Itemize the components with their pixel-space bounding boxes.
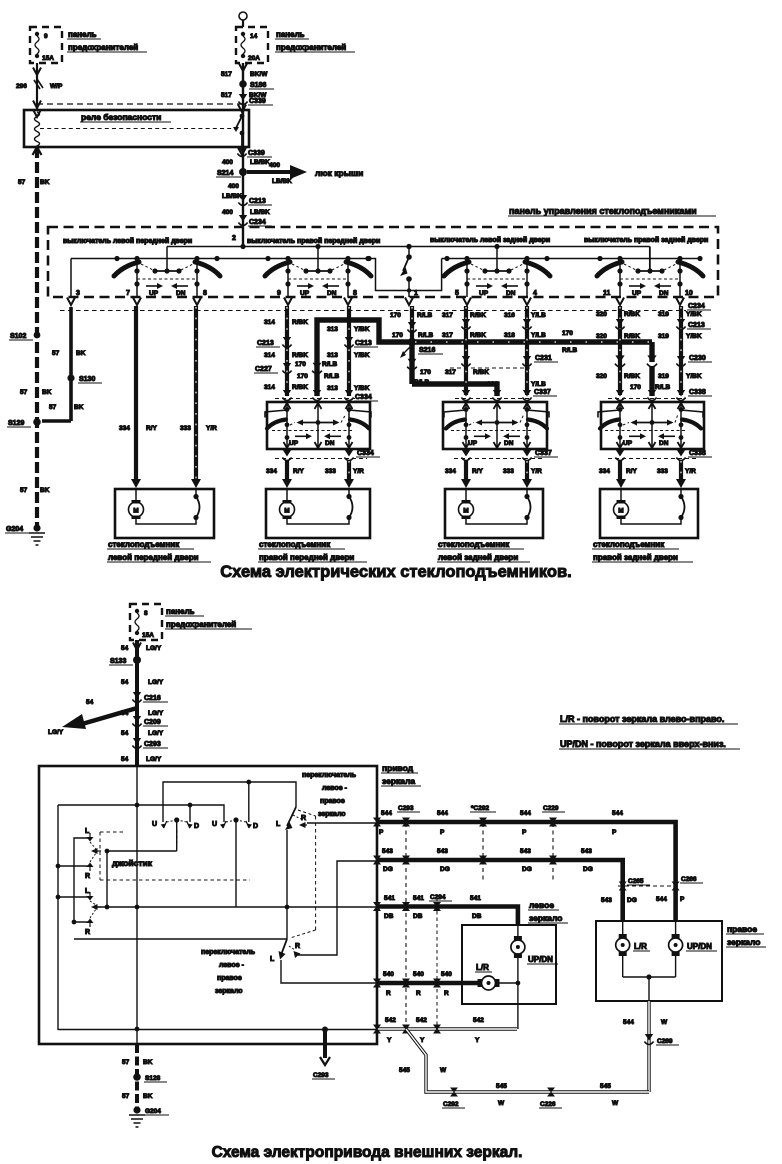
svg-text:7: 7: [126, 290, 130, 297]
svg-text:DB: DB: [384, 913, 394, 920]
motor label: [592, 540, 693, 562]
svg-text:54: 54: [121, 645, 129, 652]
svg-text:зеркало: зеркало: [215, 988, 243, 995]
svg-text:LB/BK: LB/BK: [272, 178, 292, 185]
svg-text:R/BK: R/BK: [473, 369, 489, 376]
svg-text:314: 314: [264, 352, 275, 359]
svg-text:S128: S128: [145, 1075, 161, 1082]
wire fuse1 to relay 296 W/P: [16, 63, 63, 110]
svg-text:LG/Y: LG/Y: [148, 730, 164, 737]
svg-text:170: 170: [390, 312, 401, 319]
svg-text:54: 54: [121, 756, 129, 763]
wire 517 BK/W with S186: [221, 63, 268, 247]
feed line A: [163, 780, 296, 822]
svg-text:зеркала: зеркала: [382, 776, 415, 786]
svg-text:UP: UP: [479, 290, 489, 297]
svg-text:C338: C338: [689, 450, 706, 457]
right mirror box: [596, 921, 722, 1001]
svg-text:стеклоподъемник: стеклоподъемник: [438, 540, 510, 549]
svg-text:BK: BK: [143, 1059, 153, 1066]
motor label: [437, 540, 530, 562]
bottom internal wire to 542: [58, 1027, 377, 1033]
svg-text:люк крыши: люк крыши: [315, 168, 363, 178]
svg-text:R/Y: R/Y: [293, 468, 305, 475]
svg-text:левое -: левое -: [322, 785, 348, 792]
svg-text:панель управления стеклоподъем: панель управления стеклоподъемниками: [509, 206, 697, 216]
svg-text:541: 541: [413, 895, 424, 902]
row 541 DB: [377, 895, 518, 926]
svg-text:C230: C230: [689, 355, 706, 362]
svg-text:DB: DB: [472, 913, 482, 920]
svg-text:C269: C269: [657, 1038, 673, 1045]
svg-text:313: 313: [327, 326, 338, 333]
svg-text:170: 170: [420, 369, 431, 376]
wire 334 R/Y to motor: [266, 460, 305, 481]
svg-text:BK: BK: [76, 350, 86, 357]
svg-text:Y/R: Y/R: [685, 468, 696, 475]
svg-text:левое -: левое -: [219, 962, 245, 969]
svg-text:314: 314: [264, 384, 275, 391]
svg-text:R: R: [444, 990, 449, 997]
connector C231 left: [461, 356, 470, 367]
wire 317 R/BK: [442, 306, 489, 395]
svg-text:DN: DN: [506, 290, 516, 297]
svg-text:R/LB: R/LB: [655, 384, 670, 391]
svg-text:8: 8: [203, 290, 207, 297]
левое зеркало label: [528, 900, 568, 923]
svg-text:R: R: [386, 990, 391, 997]
svg-text:L: L: [85, 888, 90, 895]
svg-text:Y/LB: Y/LB: [531, 332, 546, 339]
svg-text:320: 320: [596, 333, 607, 340]
connector C213 (feed): [238, 195, 272, 206]
svg-text:S130: S130: [79, 376, 95, 383]
svg-text:54: 54: [86, 699, 94, 706]
svg-text:D: D: [253, 823, 258, 830]
cross wire L1-R2 x74: [72, 838, 90, 924]
wire 334 R/Y left front: [119, 306, 158, 481]
splice S130: [67, 374, 102, 383]
fuse panel 1 (левый, 15A): [30, 27, 62, 63]
connector C294 dashed vertical: [436, 898, 438, 1028]
ground G204 (bottom): [129, 1106, 169, 1127]
svg-text:Y: Y: [475, 1037, 480, 1044]
connector C226 (bottom): [539, 1088, 562, 1109]
svg-text:544: 544: [623, 1019, 634, 1026]
C293 stub below box: [312, 1030, 335, 1079]
svg-text:54: 54: [121, 710, 129, 717]
svg-text:57: 57: [52, 350, 60, 357]
svg-text:320: 320: [596, 373, 607, 380]
connectors above C338: [608, 389, 712, 401]
wire 320 R/BK: [596, 306, 640, 395]
svg-text:57: 57: [49, 404, 57, 411]
sw2 R output to 543 path: [298, 861, 377, 955]
lockout switch: [400, 244, 418, 305]
svg-text:545: 545: [496, 1083, 507, 1090]
svg-text:L/R: L/R: [634, 942, 647, 951]
svg-text:R/BK: R/BK: [624, 373, 640, 380]
svg-text:LG/Y: LG/Y: [48, 729, 64, 736]
svg-text:зеркало: зеркало: [727, 937, 761, 947]
svg-text:DG: DG: [627, 897, 637, 904]
svg-text:C213: C213: [249, 198, 266, 205]
svg-text:170: 170: [392, 332, 403, 339]
link bar1 to bar2: [105, 851, 110, 909]
svg-text:C234: C234: [688, 303, 705, 310]
left mirror box: [462, 925, 556, 1004]
svg-text:57: 57: [20, 487, 28, 494]
svg-text:170: 170: [630, 384, 641, 391]
svg-text:LB/BK: LB/BK: [250, 159, 270, 166]
connector C230 right: [676, 355, 712, 367]
door switch right front (C334): [265, 402, 371, 449]
svg-text:M: M: [133, 508, 138, 515]
правое зеркало label: [726, 924, 766, 947]
svg-text:333: 333: [503, 468, 514, 475]
left vertical feed x58: [56, 805, 61, 1030]
svg-text:517: 517: [221, 92, 232, 99]
svg-text:541: 541: [384, 895, 395, 902]
splice S214 + sunroof arrow люк крыши: [216, 162, 363, 185]
svg-text:320: 320: [596, 311, 607, 318]
svg-text:543: 543: [382, 848, 393, 855]
svg-text:545: 545: [600, 1083, 611, 1090]
svg-text:C229: C229: [543, 805, 559, 812]
svg-text:20A: 20A: [248, 55, 260, 62]
svg-text:319: 319: [658, 311, 669, 318]
svg-text:Схема электрических стеклоподъ: Схема электрических стеклоподъемников.: [220, 563, 571, 581]
L/R motor (left mirror): [475, 963, 500, 990]
svg-text:170: 170: [562, 330, 573, 337]
svg-text:R/BK: R/BK: [624, 311, 640, 318]
pin 3 drop from bus: [70, 259, 72, 298]
svg-text:316: 316: [487, 381, 498, 388]
connector C234 (feed): [238, 215, 272, 226]
svg-text:UP/DN - поворот зеркала вверх-: UP/DN - поворот зеркала вверх-вниз.: [560, 739, 726, 749]
svg-text:334: 334: [445, 468, 456, 475]
svg-text:M: M: [284, 508, 289, 515]
svg-text:Y/LB: Y/LB: [531, 381, 546, 388]
svg-text:542: 542: [473, 1017, 484, 1024]
svg-text:Y/BK: Y/BK: [354, 326, 370, 333]
sw1 L output down: [285, 830, 290, 939]
feed line from pin2: [167, 244, 650, 249]
svg-text:P: P: [680, 896, 685, 903]
wire 170 R/LB from lockout pin 1: [390, 306, 432, 341]
svg-text:C337: C337: [535, 450, 552, 457]
selector switch 2 (левое-правое зеркало): [74, 939, 301, 963]
svg-text:BK: BK: [42, 389, 52, 396]
svg-text:317: 317: [442, 332, 453, 339]
svg-text:C294: C294: [430, 894, 446, 901]
svg-text:стеклоподъемник: стеклоподъемник: [108, 540, 180, 549]
svg-text:R/LB: R/LB: [562, 347, 577, 354]
svg-text:C209: C209: [144, 719, 161, 726]
wire 313 Y/BK: [327, 306, 370, 396]
joystick U/D group 1: [161, 817, 193, 828]
svg-text:317: 317: [442, 312, 453, 319]
svg-text:8: 8: [144, 610, 148, 617]
svg-text:U: U: [152, 821, 157, 828]
motor label: [258, 540, 367, 562]
splice S216: [400, 338, 443, 358]
connectors above C334: [275, 390, 378, 401]
svg-text:DG: DG: [522, 866, 532, 873]
svg-text:170: 170: [297, 373, 308, 380]
main feed vertical inside box: [135, 766, 140, 1044]
mirror switch assembly box: [39, 766, 377, 1044]
svg-text:выключатель левой задней двери: выключатель левой задней двери: [430, 236, 550, 244]
wire 544 W down from right mirror: [623, 1001, 668, 1092]
svg-text:DB: DB: [413, 913, 423, 920]
svg-text:правой передней двери: правой передней двери: [259, 553, 354, 562]
svg-text:544: 544: [656, 896, 667, 903]
relay pin arrows: [33, 110, 41, 118]
svg-text:542: 542: [385, 1017, 396, 1024]
svg-text:C339: C339: [248, 150, 265, 157]
svg-text:C334: C334: [357, 450, 374, 457]
connector C209: [132, 716, 168, 727]
svg-text:DN: DN: [327, 290, 337, 297]
svg-text:Y/BK: Y/BK: [354, 385, 370, 392]
sw2 caption: [201, 949, 256, 995]
svg-text:R: R: [416, 990, 421, 997]
svg-text:296: 296: [16, 83, 27, 90]
wire 314 R/BK: [264, 306, 308, 396]
wire 333 Y/R to motor: [325, 460, 364, 481]
svg-text:C293: C293: [144, 741, 161, 748]
svg-text:4: 4: [533, 290, 537, 297]
svg-text:зеркало: зеркало: [529, 913, 563, 923]
svg-text:R: R: [295, 943, 300, 950]
svg-text:400: 400: [222, 209, 233, 216]
svg-text:R/Y: R/Y: [472, 468, 484, 475]
wire 334 R/Y to motor: [599, 460, 638, 481]
svg-text:R: R: [85, 873, 90, 880]
svg-text:R/LB: R/LB: [418, 332, 433, 339]
dashed mechanical link selectors: [290, 810, 316, 938]
left mirror internal wires: [499, 957, 520, 1029]
svg-text:R/BK: R/BK: [470, 332, 486, 339]
svg-text:314: 314: [264, 319, 275, 326]
master panel dashed box: [48, 227, 718, 297]
svg-text:C234: C234: [249, 219, 266, 226]
terminal circle: [239, 12, 247, 20]
svg-text:LB/BK: LB/BK: [222, 193, 242, 200]
relay реле безопасности box: [24, 110, 249, 147]
label панель предохранителей (bottom): [165, 607, 252, 629]
splice S133: [109, 656, 141, 665]
svg-text:8: 8: [353, 290, 357, 297]
wire 545 W bottom run: [399, 1029, 649, 1107]
svg-text:C293: C293: [313, 1072, 329, 1079]
svg-text:DG: DG: [440, 866, 450, 873]
connector C234 dashed line: [60, 303, 711, 311]
wire 333 Y/R to motor: [503, 460, 542, 481]
svg-text:P: P: [522, 829, 527, 836]
svg-text:333: 333: [657, 468, 668, 475]
row 544 P: [377, 810, 676, 920]
connector C292 dashed vertical: [470, 805, 496, 880]
svg-text:S133: S133: [110, 658, 126, 665]
svg-text:57: 57: [122, 1093, 130, 1100]
svg-text:UP: UP: [300, 290, 310, 297]
svg-text:C265: C265: [628, 878, 644, 885]
svg-text:57: 57: [122, 1059, 130, 1066]
svg-text:W/P: W/P: [50, 83, 63, 90]
svg-text:C213: C213: [688, 322, 705, 329]
svg-text:C227: C227: [255, 366, 272, 373]
dashed link above relay: [37, 103, 242, 105]
svg-text:400: 400: [222, 159, 233, 166]
svg-text:319: 319: [658, 333, 669, 340]
svg-text:C334: C334: [355, 394, 372, 401]
UP/DN motor (left mirror): [511, 936, 525, 958]
connector C230 left: [615, 355, 625, 367]
svg-text:S102: S102: [10, 333, 26, 340]
wire 57 BK relay to G204 (dashed heavy): [35, 147, 39, 527]
svg-text:панель: панель: [166, 607, 195, 616]
svg-text:9: 9: [277, 290, 281, 297]
selector sw1 caption: [302, 772, 357, 818]
svg-text:C226: C226: [540, 1101, 556, 1108]
svg-text:DN: DN: [325, 440, 335, 447]
svg-text:C293: C293: [398, 805, 414, 812]
row 543 DG: [377, 848, 623, 921]
svg-text:левое: левое: [529, 900, 554, 910]
connector C231 right: [450, 355, 558, 368]
svg-text:DG: DG: [583, 866, 593, 873]
svg-text:BK: BK: [40, 179, 50, 186]
svg-text:Y/R: Y/R: [531, 468, 542, 475]
svg-text:LG/Y: LG/Y: [148, 710, 164, 717]
svg-text:544: 544: [381, 810, 392, 817]
svg-text:5: 5: [455, 290, 459, 297]
connector V marks on rows: [373, 818, 381, 824]
svg-text:M: M: [618, 508, 623, 515]
svg-text:правой задней двери: правой задней двери: [593, 553, 678, 562]
svg-text:544: 544: [437, 810, 448, 817]
svg-text:C231: C231: [535, 355, 552, 362]
svg-text:L/R: L/R: [476, 963, 489, 972]
UP/DN motor (right mirror): [669, 920, 717, 956]
connectors above C337: [455, 389, 557, 401]
rocker switch right rear door: [649, 247, 651, 272]
svg-text:Схема электропривода внешних з: Схема электропривода внешних зеркал.: [212, 1144, 523, 1161]
svg-text:313: 313: [327, 352, 338, 359]
svg-text:C338: C338: [689, 389, 706, 396]
svg-text:выключатель правой передней дв: выключатель правой передней двери: [247, 237, 380, 245]
svg-text:R/LB: R/LB: [417, 312, 432, 319]
svg-text:LB/BK: LB/BK: [250, 209, 270, 216]
joystick pivot outputs: [105, 820, 177, 853]
svg-text:предохранителей: предохранителей: [276, 43, 346, 52]
rocker switch left rear door: [444, 247, 550, 306]
svg-text:R/BK: R/BK: [292, 352, 308, 359]
svg-text:P: P: [440, 829, 445, 836]
svg-text:57: 57: [20, 389, 28, 396]
svg-text:LG/Y: LG/Y: [148, 679, 164, 686]
svg-text:Y/BK: Y/BK: [686, 373, 702, 380]
svg-text:R/BK: R/BK: [292, 319, 308, 326]
svg-text:S214: S214: [217, 170, 233, 177]
svg-text:C337: C337: [534, 389, 551, 396]
bus wire switches 1-2: [71, 258, 369, 260]
svg-text:Y: Y: [387, 1037, 392, 1044]
svg-text:Y/BK: Y/BK: [354, 352, 370, 359]
привод зеркала label: [381, 763, 421, 786]
svg-text:11: 11: [603, 290, 611, 297]
svg-text:переключатель: переключатель: [302, 772, 357, 779]
connector C293 (feed): [132, 738, 168, 749]
contact feeds: [58, 865, 90, 867]
wire 333 Y/R left front: [180, 306, 217, 481]
svg-text:переключатель: переключатель: [201, 949, 256, 956]
svg-text:*C292: *C292: [471, 805, 489, 812]
connector C227: [254, 363, 292, 374]
svg-text:UP: UP: [632, 290, 642, 297]
connector line C265/C266: [601, 876, 703, 904]
svg-text:правое: правое: [727, 924, 757, 934]
svg-text:U: U: [212, 821, 217, 828]
svg-text:L/R - поворот зеркала влево-вп: L/R - поворот зеркала влево-вправо.: [560, 714, 724, 724]
svg-text:316: 316: [504, 312, 515, 319]
svg-text:Y/LB: Y/LB: [531, 312, 546, 319]
svg-text:1: 1: [414, 290, 418, 297]
svg-text:540: 540: [383, 971, 394, 978]
svg-text:334: 334: [266, 468, 277, 475]
connector C216: [132, 692, 168, 703]
svg-text:R/BK: R/BK: [292, 384, 308, 391]
svg-text:541: 541: [470, 895, 481, 902]
svg-text:UP: UP: [289, 440, 299, 447]
relay contact: [233, 114, 244, 147]
window motor left front door: [115, 479, 214, 538]
row 542 Y: [377, 1017, 517, 1044]
svg-text:UP: UP: [623, 440, 633, 447]
bus wire switches 3-4: [442, 258, 699, 260]
svg-text:P: P: [612, 829, 617, 836]
connector C269: [644, 1034, 679, 1045]
wire 319 Y/BK: [658, 306, 702, 395]
splice S129: [7, 418, 41, 427]
svg-text:W: W: [661, 1019, 668, 1026]
svg-text:14: 14: [250, 33, 258, 40]
svg-text:S216: S216: [419, 347, 435, 354]
svg-text:9: 9: [44, 33, 48, 40]
window motor right rear door: [600, 479, 698, 538]
svg-text:BK: BK: [74, 404, 84, 411]
connector C293 dashed vertical: [397, 805, 420, 1028]
svg-text:G204: G204: [145, 1108, 161, 1115]
svg-text:джойстик: джойстик: [112, 858, 153, 868]
joystick dashed outline: [100, 830, 250, 880]
svg-text:Y: Y: [420, 1037, 425, 1044]
heavy 170 R/LB feed to left rear: [412, 384, 497, 396]
svg-text:S129: S129: [8, 420, 24, 427]
svg-text:313: 313: [327, 385, 338, 392]
svg-text:панель: панель: [276, 30, 305, 39]
connector C339 (below relay): [237, 146, 272, 157]
label панель предохранителей (center): [275, 30, 355, 52]
L/R rocker 2: [87, 892, 102, 927]
svg-text:предохранителей: предохранителей: [68, 43, 138, 52]
svg-text:предохранителей: предохранителей: [166, 620, 236, 629]
ground G204 (left): [5, 524, 45, 545]
rocker switch right front door: [265, 247, 371, 306]
svg-text:W: W: [440, 1067, 447, 1074]
